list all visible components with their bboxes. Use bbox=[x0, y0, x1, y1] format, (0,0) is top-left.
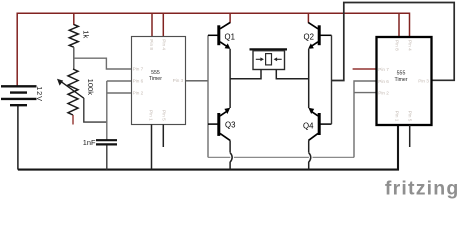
wire V+ drop to U1 pin4 bbox=[162, 13, 164, 36]
resistor R1 1k bbox=[69, 25, 78, 48]
svg-text:Q4: Q4 bbox=[303, 122, 314, 131]
wire top black net U2 pin3 to bases bbox=[332, 3, 455, 81]
transistor Q4 bbox=[303, 108, 332, 141]
potentiometer bottom red stub bbox=[72, 115, 74, 125]
capacitor C1 1nF bbox=[96, 139, 117, 141]
svg-text:12V: 12V bbox=[35, 86, 44, 102]
svg-text:Q1: Q1 bbox=[225, 33, 235, 42]
svg-text:Pin 1: Pin 1 bbox=[395, 111, 400, 122]
wire U2 pin6/pin2 to gray rail bbox=[354, 81, 377, 157]
wire V+ drop to Q1 collector bbox=[229, 13, 231, 23]
svg-text:Timer: Timer bbox=[394, 77, 407, 83]
wire V+ top rail bbox=[17, 13, 409, 86]
svg-text:Pin 6: Pin 6 bbox=[133, 78, 144, 83]
wire U1 pin2 to node bbox=[107, 92, 132, 94]
wire Q4 emitter down with hop over gray rail bbox=[308, 140, 310, 152]
wire base bus right vertical Q2/Q4 bbox=[331, 35, 333, 124]
wire battery negative to ground rail bbox=[17, 106, 19, 170]
wire V+ drop to Q2 collector bbox=[307, 13, 309, 23]
svg-text:555: 555 bbox=[151, 70, 160, 76]
wire U1 pin1 to ground bbox=[151, 125, 153, 170]
IC U1 555 timer body bbox=[132, 37, 186, 125]
wire R1 bottom to potentiometer top bbox=[73, 47, 75, 69]
wire Q1 emitter trunk / motor left node bbox=[229, 49, 231, 108]
svg-text:555: 555 bbox=[397, 70, 406, 76]
wire ground bottom rail bbox=[18, 125, 398, 170]
wire U2 pin7 red stub bbox=[353, 68, 377, 70]
wire gray cross rail bbox=[208, 156, 354, 158]
svg-text:Pin 7: Pin 7 bbox=[133, 66, 144, 71]
wire motor right lead bbox=[276, 70, 308, 79]
svg-text:Pin 7: Pin 7 bbox=[378, 67, 389, 72]
wire capacitor to ground rail bbox=[106, 146, 108, 170]
transistor Q1 bbox=[208, 22, 235, 49]
wire U1 pin6 to node bbox=[107, 80, 132, 82]
wire Q3 emitter down with hop over gray rail bbox=[229, 140, 231, 152]
svg-text:Timer: Timer bbox=[149, 76, 162, 82]
wire V+ drop to U1 pin8 bbox=[151, 13, 153, 36]
transistor Q2 bbox=[304, 22, 332, 49]
battery BT1 bbox=[1, 86, 37, 105]
pin labels U1 left bbox=[133, 39, 184, 121]
wire U1 pin5 stub bbox=[162, 125, 164, 148]
potentiometer RV1 100k bbox=[68, 69, 78, 115]
IC U2 555 timer body bbox=[377, 37, 432, 125]
svg-text:Pin 8: Pin 8 bbox=[149, 39, 154, 50]
wire motor left lead bbox=[230, 70, 261, 79]
pin labels U2 bbox=[378, 40, 429, 122]
wire V+ drop to R1 bbox=[73, 13, 75, 25]
wire R1/pot node to U1 pin7 bbox=[74, 58, 132, 69]
svg-text:1nF: 1nF bbox=[83, 138, 96, 147]
wire U1 pin3 output to Q1/Q3 bases bbox=[186, 80, 209, 82]
svg-text:Pin 2: Pin 2 bbox=[378, 91, 389, 96]
svg-text:100k: 100k bbox=[86, 79, 95, 96]
wire V+ drop to U2 pin8 bbox=[398, 13, 400, 37]
svg-text:Pin 8: Pin 8 bbox=[395, 40, 400, 51]
svg-text:Q3: Q3 bbox=[225, 121, 235, 130]
svg-text:Pin 3: Pin 3 bbox=[173, 78, 184, 83]
svg-text:Pin 2: Pin 2 bbox=[133, 90, 144, 95]
wire base bus left vertical bbox=[207, 35, 209, 157]
svg-text:Pin 4: Pin 4 bbox=[162, 39, 167, 50]
svg-text:fritzing: fritzing bbox=[385, 178, 457, 200]
svg-text:Pin 6: Pin 6 bbox=[378, 79, 389, 84]
svg-text:1k: 1k bbox=[82, 30, 91, 38]
transistor Q3 bbox=[208, 108, 235, 141]
wire node vertical to capacitor bbox=[106, 81, 108, 140]
svg-text:Q2: Q2 bbox=[304, 33, 314, 42]
svg-text:Pin 5: Pin 5 bbox=[407, 111, 412, 122]
wire Q2 emitter trunk / motor right node bbox=[308, 49, 310, 108]
potentiometer wiper arrow bbox=[61, 81, 84, 98]
wire pot wiper to cap node bbox=[84, 98, 107, 122]
motor M1 bbox=[250, 49, 288, 69]
wire U2 pin5 stub bbox=[409, 125, 411, 147]
svg-text:Pin 4: Pin 4 bbox=[408, 40, 413, 51]
svg-text:Pin 3: Pin 3 bbox=[418, 78, 429, 83]
svg-text:Pin 5: Pin 5 bbox=[161, 110, 166, 121]
svg-text:Pin 1: Pin 1 bbox=[149, 110, 154, 121]
